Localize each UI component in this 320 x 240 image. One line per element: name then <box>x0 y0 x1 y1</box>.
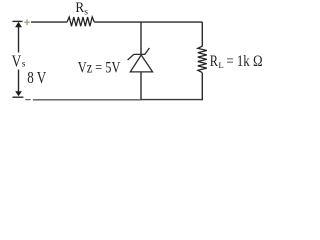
svg-text:Vz = 5V: Vz = 5V <box>78 59 121 77</box>
wire zener branch bottom <box>140 72 142 100</box>
wire bottom (right corner to minus) <box>141 99 202 101</box>
svg-text:8 V: 8 V <box>27 68 46 87</box>
resistor Rs (horizontal zigzag) <box>67 17 94 26</box>
source V1 arrow (down arrowhead with end bar) <box>13 70 24 98</box>
wire zener branch top <box>140 22 142 54</box>
wire top segment (plus to Rs) <box>31 21 67 23</box>
zener diode D1 anode triangle (outline, pointing up) <box>130 55 152 72</box>
zener diode D1 cathode bar (bent Z-bar) <box>128 48 150 60</box>
svg-text:= 1k Ω: = 1k Ω <box>226 53 262 70</box>
svg-text:s: s <box>22 59 26 69</box>
wire right branch bottom <box>201 73 203 101</box>
wire right branch top (corner down to RL) <box>201 22 203 46</box>
svg-text:R: R <box>75 0 84 16</box>
svg-text:s: s <box>84 7 88 17</box>
node + (plus polarity mark, top left) <box>24 19 30 25</box>
node - (minus polarity mark, bottom left) <box>25 99 31 101</box>
svg-text:L: L <box>218 60 223 70</box>
svg-text:V: V <box>12 52 22 71</box>
source V1 arrow (voltage source Vs, up arrowhead with end bar) <box>12 21 22 52</box>
wire top segment (Rs to top-right corner) <box>94 21 202 23</box>
wire bottom left half (gray) <box>33 99 141 101</box>
svg-text:R: R <box>210 53 219 70</box>
resistor RL (vertical zigzag) <box>198 46 207 72</box>
